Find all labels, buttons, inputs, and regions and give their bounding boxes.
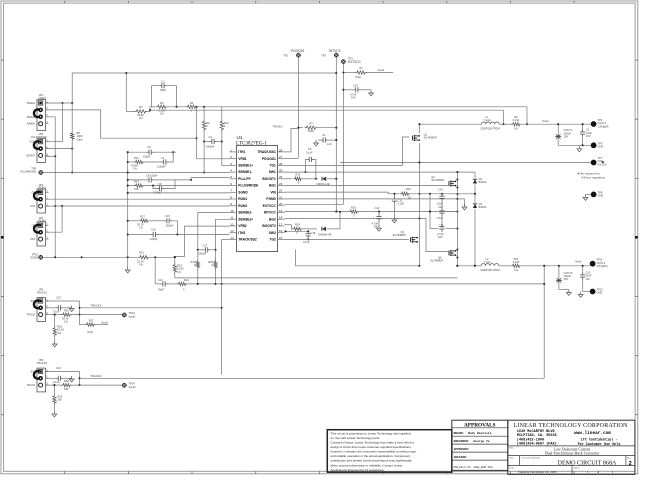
- svg-text:16V: 16V: [438, 235, 443, 239]
- transistor Q1 SiL7848DP: [414, 135, 415, 137]
- svg-text:39pF: 39pF: [160, 88, 166, 92]
- svg-text:1000pF: 1000pF: [206, 145, 215, 149]
- wire TP2 INTVCC down: [335, 57, 337, 211]
- svg-text:24: 24: [279, 175, 283, 179]
- svg-text:TP2: TP2: [321, 54, 326, 58]
- svg-text:0.1uF: 0.1uF: [306, 150, 313, 154]
- U1 pin 28 TRACK/SS1: [278, 151, 285, 153]
- U1 pin 14 TRACK/SS2: [230, 238, 237, 240]
- svg-text:Applications Engineering for a: Applications Engineering for assistance.: [331, 468, 385, 472]
- svg-text:CDEP105-7R2M: CDEP105-7R2M: [480, 127, 499, 131]
- svg-text:0.1uF: 0.1uF: [398, 202, 405, 206]
- U1 pin 23 BG1: [278, 185, 285, 187]
- wire C13 right y=212: [446, 211, 458, 213]
- svg-text:10: 10: [230, 209, 234, 213]
- svg-text:15: 15: [279, 236, 283, 240]
- svg-text:APPROVALS: APPROVALS: [464, 423, 496, 429]
- svg-text:TRACK: TRACK: [27, 383, 36, 387]
- svg-text:SiL7848DP: SiL7848DP: [431, 178, 444, 182]
- svg-text:R17: R17: [140, 215, 145, 219]
- wire pin12 VFB2 route: [175, 226, 230, 257]
- svg-text:C22: C22: [56, 296, 61, 300]
- svg-text:12: 12: [230, 222, 234, 226]
- resistor R17 35.7K 1%: [139, 219, 150, 222]
- test point TP14 track2: [122, 383, 127, 388]
- svg-text:17: 17: [279, 222, 283, 226]
- svg-text:R28: R28: [64, 379, 69, 383]
- svg-text:for use with Linear Technology: for use with Linear Technology parts.: [331, 436, 381, 440]
- svg-text:INTVCC: INTVCC: [329, 49, 342, 53]
- resistor R4 0: [186, 105, 198, 108]
- svg-text:TP1: TP1: [283, 54, 288, 58]
- svg-text:(Opt): (Opt): [77, 137, 83, 141]
- svg-text:20: 20: [279, 202, 283, 206]
- svg-text:19: 19: [279, 209, 283, 213]
- wire pin 26 TG1 to Q1 gate: [285, 137, 410, 165]
- wire y=284 row to x=544: [188, 283, 545, 285]
- zone mark dots: [1, 236, 4, 239]
- svg-text:SiL7848DP: SiL7848DP: [424, 136, 437, 140]
- svg-text:R27: R27: [89, 319, 94, 323]
- wire vert x=544 track2: [543, 266, 545, 379]
- wire TP3 EXTVCC down: [342, 64, 344, 205]
- wire JP1 vertical x=126: [125, 73, 127, 111]
- ground C12: [378, 225, 380, 228]
- svg-text:C4: C4: [209, 135, 213, 139]
- svg-text:TRACK: TRACK: [27, 313, 36, 317]
- svg-text:16: 16: [279, 229, 283, 233]
- svg-text:10V: 10V: [564, 135, 569, 139]
- svg-text:Customer Notice: Linear Techno: Customer Notice: Linear Technology has m…: [331, 441, 415, 445]
- svg-text:0.1uF: 0.1uF: [53, 310, 60, 314]
- diode D3 B340A: [473, 204, 477, 208]
- svg-text:(Opt): (Opt): [87, 330, 93, 334]
- svg-text:however, it remains the custom: however, it remains the customers respon…: [331, 450, 417, 454]
- svg-text:150pF: 150pF: [143, 155, 151, 159]
- svg-text:1000pF: 1000pF: [198, 252, 207, 256]
- svg-text:25: 25: [279, 169, 283, 173]
- svg-text:LTC Confidential -: LTC Confidential -: [581, 437, 618, 442]
- diode D1 CMDSH-4E: [322, 177, 326, 181]
- svg-text:Vout2: Vout2: [575, 260, 582, 264]
- wire JP1 pin1 to bus: [46, 102, 73, 104]
- test point TP4 VOUT1: [591, 121, 597, 127]
- resistor R16 0: [348, 210, 359, 213]
- svg-text:APPROVED:: APPROVED:: [454, 448, 470, 451]
- svg-text:BOOST2: BOOST2: [262, 224, 276, 228]
- resistor R22 0.015 1%: [511, 264, 522, 267]
- U1 pin 3 SENSE1+: [230, 164, 237, 166]
- svg-text:1.0uF: 1.0uF: [437, 201, 444, 205]
- U1 pin 13 ITH2: [230, 232, 237, 234]
- wire pin 17 BOOST2 + R18 + diode: [285, 224, 292, 226]
- svg-text:10V: 10V: [564, 277, 569, 281]
- U1 pin 24 BOOST1: [278, 178, 285, 180]
- svg-text:C18: C18: [311, 231, 316, 235]
- capacitor COUT3 150uF: [558, 266, 560, 290]
- svg-text:C15: C15: [165, 214, 170, 218]
- U1 pin 21 PGND: [278, 198, 285, 200]
- wire pin 19 INTVCC + R16 + C12: [285, 211, 349, 213]
- ground C24: [370, 90, 372, 93]
- svg-text:TRACK/SS2: TRACK/SS2: [238, 238, 257, 242]
- svg-text:PCB_East pcb 868A_EAST.SCH: PCB_East pcb 868A_EAST.SCH: [454, 466, 493, 469]
- svg-text:substitution and printed circu: substitution and printed circuit board l…: [331, 459, 413, 463]
- test point TP7 VIN: [591, 160, 597, 166]
- svg-text:7.2uH: 7.2uH: [484, 118, 491, 122]
- wire pin 18 BG2 to Q4 gate: [285, 217, 427, 219]
- svg-text:10V: 10V: [586, 134, 591, 138]
- svg-text:100pF: 100pF: [150, 237, 158, 241]
- resistor R29 180: [53, 394, 56, 405]
- svg-text:PGOOD1: PGOOD1: [262, 157, 276, 161]
- svg-text:BOOST1: BOOST1: [262, 177, 276, 181]
- svg-text:27: 27: [279, 155, 283, 159]
- svg-text:560pF: 560pF: [166, 223, 174, 227]
- wire JP2 pin2 to bus: [46, 148, 73, 150]
- wire R10 to pin3 SENSE1+: [222, 165, 230, 167]
- wire JP4 RUN2 riser: [61, 206, 63, 232]
- wire pin 25 SW1: [285, 171, 476, 173]
- svg-text:R15: R15: [406, 187, 411, 191]
- wire y=277.9 row: [175, 277, 458, 279]
- svg-text:Vout2: Vout2: [378, 68, 385, 72]
- U1 pin 10 SENSE2-: [230, 212, 237, 214]
- svg-text:PLLIN/MODE: PLLIN/MODE: [238, 184, 259, 188]
- svg-text:Dual Synchronous Buck Converte: Dual Synchronous Buck Converter: [545, 452, 600, 456]
- resistor R14 10K: [134, 184, 145, 187]
- capacitor C20 10uF: [582, 266, 584, 273]
- wire pin1 link: [172, 152, 174, 157]
- resistor R20 0: [214, 260, 217, 270]
- resistor R2 68.1K 1%: [134, 110, 147, 113]
- wire pin 27 pgood1: [285, 158, 299, 160]
- wire pin11 SENSE2+ route: [216, 219, 230, 250]
- svg-text:R16: R16: [351, 205, 356, 209]
- capacitor C2 22uF: [582, 124, 584, 130]
- notice text box: [327, 430, 452, 473]
- svg-text:C7: C7: [161, 156, 165, 160]
- svg-text:VIN: VIN: [270, 190, 276, 194]
- svg-text:ENGINEER: George Yu: ENGINEER: George Yu: [454, 440, 490, 443]
- U1 pin 19 INTVCC: [278, 212, 285, 214]
- U1 pin 6 PLLIN/MODE: [230, 185, 237, 187]
- svg-text:C24: C24: [353, 84, 358, 88]
- wire D2/D3 column x=475: [474, 172, 476, 179]
- svg-text:RUN2: RUN2: [238, 204, 247, 208]
- svg-text:EXTVCC: EXTVCC: [263, 204, 277, 208]
- resistor R28 180: [46, 384, 62, 386]
- ground R29: [53, 411, 55, 414]
- svg-text:SS1: SS1: [30, 299, 35, 303]
- title rows: [508, 445, 635, 447]
- wire cap ladder row y=194: [430, 193, 475, 195]
- U1 pin 7 SGND: [230, 191, 237, 193]
- U1 pin 4 SENSE1-: [230, 171, 237, 173]
- svg-text:OFF: OFF: [30, 237, 36, 241]
- ground C22: [71, 306, 73, 309]
- resistor R6 0.012 1%: [511, 123, 522, 126]
- U1 pin 26 TG1: [278, 164, 285, 166]
- svg-text:PGND: PGND: [266, 197, 276, 201]
- ground SGND rail: [127, 257, 129, 268]
- svg-text:BURST: BURST: [27, 154, 36, 158]
- svg-text:TRACK2: TRACK2: [37, 361, 48, 365]
- svg-text:Date: Date: [510, 466, 515, 469]
- ground at TP8: [586, 193, 591, 195]
- U1 pin 11 SENSE2+: [230, 218, 237, 220]
- svg-text:C3: C3: [322, 133, 326, 137]
- svg-text:GND: GND: [598, 194, 604, 198]
- svg-text:39pF: 39pF: [158, 287, 164, 291]
- svg-text:1uF: 1uF: [327, 142, 332, 146]
- U1 pin 12 VFB2: [230, 225, 237, 227]
- wire C21 riser x=155.2: [154, 257, 156, 284]
- wire pin6 PLLIN/MODE row: [145, 185, 230, 187]
- U1 pin 17 BOOST2: [278, 225, 285, 227]
- svg-text:R3: R3: [160, 101, 164, 105]
- wire pin 28 track/ss1: [285, 129, 299, 152]
- U1 pin 15 TG2: [278, 238, 285, 240]
- wire SGND rail y=257.3: [43, 256, 138, 258]
- resistor R7 200K: [298, 127, 303, 129]
- test point TP13 track1: [122, 313, 127, 318]
- resistor R21 22.1K 1%: [138, 256, 150, 259]
- svg-text:R18: R18: [295, 223, 300, 227]
- svg-text:GND: GND: [597, 291, 603, 295]
- svg-text:INTVCC: INTVCC: [264, 211, 277, 215]
- svg-text:TRACK1: TRACK1: [273, 124, 284, 128]
- svg-text:2: 2: [629, 461, 632, 467]
- wire Q1 column x=419.4: [418, 124, 420, 133]
- wire SW2/L2 row y=265.8: [457, 265, 481, 267]
- wire JP5 pin1 to track node: [46, 300, 80, 302]
- svg-text:R1: R1: [359, 66, 363, 70]
- svg-text:SW1: SW1: [269, 170, 276, 174]
- wire pin 20 EXTVCC: [285, 204, 344, 206]
- svg-text:0.015: 0.015: [513, 260, 520, 264]
- svg-text:200K: 200K: [308, 129, 314, 133]
- svg-text:This circuit is proprietary to: This circuit is proprietary to Linear Te…: [331, 431, 411, 435]
- svg-text:250kHz: 250kHz: [27, 115, 36, 119]
- svg-text:1200pF: 1200pF: [157, 165, 166, 169]
- pgnd arrow: [464, 199, 466, 206]
- svg-text:R25: R25: [64, 308, 69, 312]
- wire JP3 RUN1 to pin8: [46, 198, 230, 200]
- wire VIN to TP7: [340, 162, 591, 164]
- wire JP1/JP2 bus x=72.2: [71, 103, 73, 131]
- wire ladder bottom row y=228.6: [430, 228, 439, 230]
- resistor R26 51.1K 1%: [53, 326, 56, 337]
- svg-text:SW2: SW2: [269, 231, 276, 235]
- wire pin10 SENSE2- route: [198, 213, 230, 250]
- wire SGND pin7: [128, 192, 230, 194]
- U1 pin 25 SW1: [278, 171, 285, 173]
- svg-text:TRACK2: TRACK2: [90, 374, 101, 378]
- wire left bus x=127.7: [127, 152, 129, 257]
- svg-text:BG1: BG1: [269, 184, 276, 188]
- svg-text:TP14: TP14: [129, 382, 136, 386]
- svg-text:10V: 10V: [585, 277, 590, 281]
- test point TP11 VOUT2: [590, 261, 596, 267]
- wire top rail y=73: [72, 73, 336, 103]
- resistor R25 35.7K 1%: [61, 313, 72, 316]
- svg-text:(408)432-1900: (408)432-1900: [517, 437, 544, 442]
- svg-text:23: 23: [279, 182, 283, 186]
- ground output1: [578, 146, 580, 149]
- wire pin 15 TG2 to Q3 gate: [285, 238, 410, 240]
- U1 pin 9 RUN2: [230, 205, 237, 207]
- svg-text:Low Quiescent Current: Low Quiescent Current: [554, 447, 591, 451]
- resistor R1 (Opt): [343, 72, 355, 74]
- svg-text:180: 180: [57, 398, 62, 402]
- ground R26: [54, 341, 56, 344]
- wire TP1 PGOOD1 down: [297, 57, 299, 128]
- resistor R9 0: [202, 120, 205, 132]
- test point TP6 GND: [591, 142, 597, 148]
- svg-text:PGOOD1: PGOOD1: [291, 49, 305, 53]
- svg-text:21: 21: [279, 195, 283, 199]
- svg-text:C1: C1: [161, 79, 165, 83]
- svg-text:26: 26: [279, 162, 283, 166]
- svg-text:SiL7848DP: SiL7848DP: [430, 259, 443, 263]
- U1 pin 5 PLLLPF: [230, 178, 237, 180]
- svg-text:B340A: B340A: [479, 205, 487, 209]
- svg-text:C10: C10: [438, 188, 443, 192]
- diode D4 CMDSH-4E: [322, 227, 326, 231]
- svg-text:1.8V@5A: 1.8V@5A: [598, 124, 609, 128]
- ground C3: [315, 140, 317, 143]
- svg-text:R2: R2: [139, 105, 143, 109]
- svg-text:C17: C17: [203, 243, 208, 247]
- wire TRACK2 row to x=544: [80, 377, 545, 379]
- svg-text:C12: C12: [375, 206, 380, 210]
- svg-text:10V: 10V: [351, 96, 356, 100]
- svg-text:TG2: TG2: [269, 238, 276, 242]
- U1 pin 18 BG2: [278, 218, 285, 220]
- wire TP9 row: [43, 172, 230, 174]
- svg-text:(Opt): (Opt): [355, 75, 361, 79]
- wire pin14 TRACK/SS2: [222, 238, 230, 240]
- inductor L2 7.2uH CDEP105-7R2M: [481, 264, 499, 266]
- U1 pin 8 RUN1: [230, 198, 237, 200]
- svg-text:EXTVCC: EXTVCC: [348, 60, 362, 64]
- wire x=62.5 to JP2 pin1: [62, 103, 64, 142]
- svg-text:C9: C9: [158, 182, 162, 186]
- svg-text:BG2: BG2: [269, 217, 276, 221]
- test point TP8 GND: [591, 192, 597, 198]
- svg-text:Vout2: Vout2: [101, 320, 108, 324]
- svg-text:design a circuit that meets cu: design a circuit that meets customer-sup…: [331, 445, 412, 449]
- svg-text:C8 100pF: C8 100pF: [146, 174, 158, 178]
- wire JP1 pin2 route: [46, 110, 197, 138]
- svg-text:U1: U1: [237, 135, 243, 140]
- wire JP3 pin3 / RUN2 row to pin9: [46, 205, 56, 207]
- svg-text:R24: R24: [184, 278, 189, 282]
- wire vert x=191 up to pin5: [190, 178, 192, 180]
- svg-text:SGND: SGND: [31, 256, 39, 260]
- svg-text:0.012: 0.012: [513, 118, 520, 122]
- ground C23: [71, 376, 73, 379]
- svg-text:C13: C13: [438, 205, 443, 209]
- svg-text:ON: ON: [32, 190, 36, 194]
- svg-text:COM: COM: [29, 140, 35, 144]
- U1 pin 16 SW2: [278, 232, 285, 234]
- svg-text:track2: track2: [129, 385, 137, 389]
- svg-text:C5: C5: [148, 145, 152, 149]
- wire SW1/L1 row y=124.2: [419, 123, 482, 125]
- svg-text:R12: R12: [134, 156, 139, 160]
- svg-text:R21: R21: [139, 250, 144, 254]
- svg-text:7.2uH: 7.2uH: [484, 260, 491, 264]
- wire gnd row out1: [558, 144, 591, 146]
- ground C11: [393, 217, 395, 220]
- resistor R24 0: [177, 282, 188, 285]
- svg-text:10K: 10K: [134, 187, 139, 191]
- svg-text:CDEP105-7R2M: CDEP105-7R2M: [480, 268, 499, 272]
- svg-text:28: 28: [279, 148, 283, 152]
- diode D2 B340A: [473, 179, 477, 183]
- svg-text:PLLLPF: PLLLPF: [238, 177, 250, 181]
- wire JP1 pin3 to mode vertical: [46, 117, 56, 257]
- svg-text:VFB1: VFB1: [238, 157, 247, 161]
- svg-text:1.0uF: 1.0uF: [437, 216, 444, 220]
- svg-text:ITH2: ITH2: [238, 231, 245, 235]
- svg-text:TRACK/SS1: TRACK/SS1: [257, 150, 276, 154]
- capacitor C12 4.7uF 16V: [378, 212, 380, 215]
- wire x=196.5 to pin2 VFB1: [196, 107, 198, 159]
- svg-text:18: 18: [279, 216, 283, 220]
- wire pin 16 SW2 + C18: [285, 230, 309, 232]
- capacitor COUT1 150uF: [557, 124, 559, 145]
- svg-text:TRACK1: TRACK1: [37, 290, 48, 294]
- svg-text:RUN1: RUN1: [238, 197, 247, 201]
- svg-text:14: 14: [230, 236, 234, 240]
- wire pin 21 PGND to arrow: [285, 198, 465, 200]
- resistor R3 2.15K 1%: [156, 105, 168, 108]
- transistor Q3 SiL7848DP: [412, 237, 413, 239]
- svg-text:and reliable operation in the: and reliable operation in the actual app…: [331, 454, 411, 458]
- capacitor C7 1200pF: [161, 161, 164, 163]
- resistor R15 10: [400, 192, 411, 195]
- wire ladder mid x=430: [429, 194, 431, 229]
- svg-text:22: 22: [279, 189, 283, 193]
- resistor R23 21.5K 1%: [173, 263, 176, 274]
- svg-text:PLLIN/MODE: PLLIN/MODE: [20, 170, 36, 174]
- svg-text:www.linear.com: www.linear.com: [574, 431, 611, 436]
- svg-text:OFF: OFF: [30, 204, 36, 208]
- svg-text:R4: R4: [190, 101, 194, 105]
- svg-text:DRAWN: Rudy Bautista: DRAWN: Rudy Bautista: [454, 431, 492, 435]
- svg-text:CMDSH-4E: CMDSH-4E: [318, 233, 332, 237]
- svg-text:SGND: SGND: [238, 190, 248, 194]
- U1 pin 1 ITH1: [230, 151, 237, 153]
- approvals box: [452, 420, 508, 470]
- svg-text:550kHz: 550kHz: [27, 101, 36, 105]
- svg-text:0.1uF: 0.1uF: [53, 380, 60, 384]
- svg-text:400kHz: 400kHz: [27, 122, 36, 126]
- svg-text:SiL7848DP: SiL7848DP: [393, 233, 406, 237]
- svg-text:SENSE1+: SENSE1+: [238, 164, 253, 168]
- svg-text:affect circuit performance or: affect circuit performance or reliabilit…: [331, 463, 403, 467]
- U1 pin 2 VFB1: [230, 158, 237, 160]
- ground output2 b: [580, 292, 582, 295]
- svg-text:11: 11: [230, 216, 233, 220]
- wire pin 24 BOOST1 + R13 + diode: [285, 178, 293, 180]
- svg-text:C16: C16: [151, 228, 156, 232]
- capacitor C18 0.1uF: [307, 231, 309, 234]
- U1 pin 20 EXTVCC: [278, 205, 285, 207]
